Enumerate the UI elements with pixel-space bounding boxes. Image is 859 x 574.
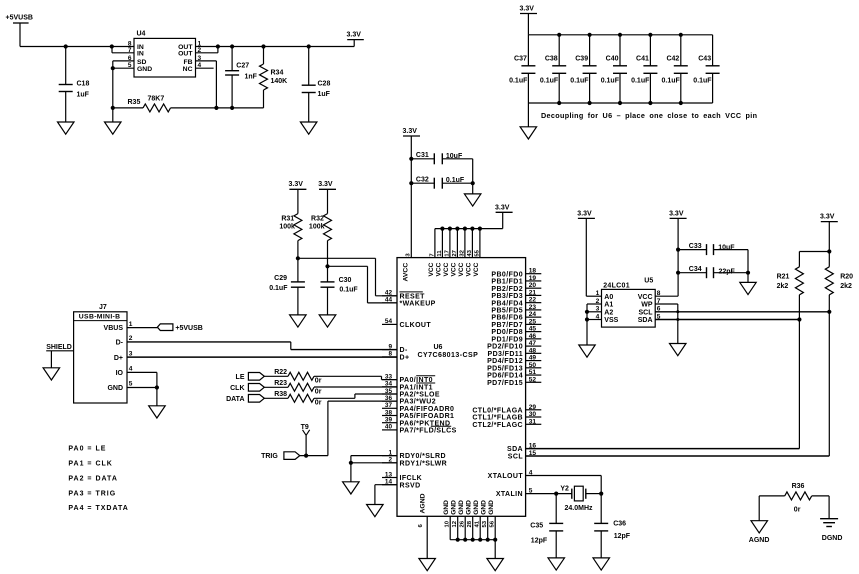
svg-text:0r: 0r (315, 378, 322, 385)
capacitor C33 10uF (678, 243, 748, 255)
svg-text:1uF: 1uF (77, 92, 90, 99)
wire DATA to PA2 pin35 (314, 394, 397, 398)
ground J7 (149, 406, 166, 418)
svg-text:C32: C32 (416, 176, 429, 183)
svg-text:D+: D+ (400, 355, 410, 362)
svg-text:DGND: DGND (822, 535, 843, 542)
wire D+ J7 to chip (127, 356, 397, 358)
svg-text:C42: C42 (666, 56, 679, 63)
node +5VUSB tag (127, 324, 203, 332)
pin 15 SCL (508, 450, 537, 461)
resistor R38 0r (274, 391, 321, 406)
svg-text:XTALOUT: XTALOUT (488, 473, 524, 480)
eeprom U5 24LC01 body (602, 278, 656, 328)
svg-text:VBUS: VBUS (104, 325, 124, 332)
pin 26 GND (458, 500, 466, 540)
svg-text:PA4/FIFOADR0: PA4/FIFOADR0 (400, 406, 455, 413)
ground AGND chip (419, 559, 436, 571)
wire RDY0/RDY1 tie to ground (349, 456, 397, 482)
svg-text:R20: R20 (840, 273, 853, 280)
svg-text:GND: GND (466, 500, 473, 515)
svg-text:17: 17 (444, 249, 450, 256)
svg-text:PB4/FD4: PB4/FD4 (491, 300, 523, 307)
svg-text:46: 46 (529, 333, 537, 340)
pin 2 A1 U5 (596, 298, 614, 309)
capacitor C30 0.1uF (321, 277, 359, 315)
pin 13 IFCLK stub (382, 471, 422, 482)
svg-text:FB: FB (183, 59, 192, 66)
ground under C35 (548, 558, 565, 570)
svg-text:RSVD: RSVD (400, 482, 421, 489)
svg-text:SHIELD: SHIELD (46, 344, 72, 351)
svg-text:18: 18 (529, 268, 537, 275)
svg-text:SD: SD (137, 59, 147, 66)
svg-text:RDY0/*SLRD: RDY0/*SLRD (400, 453, 446, 460)
svg-text:U6: U6 (434, 344, 443, 351)
svg-text:PB5/FD5: PB5/FD5 (491, 308, 523, 315)
svg-text:20: 20 (529, 282, 537, 289)
resistor R35 78K7 (111, 96, 264, 112)
ground U5 WP (670, 344, 687, 356)
svg-text:R36: R36 (792, 483, 805, 490)
ground DGND symbol (820, 519, 842, 542)
resistor R22 0r (274, 369, 321, 384)
overline SLCS (431, 425, 451, 427)
pin 39 PA6/*PKTEND stub (382, 417, 450, 428)
capacitor C38 0.1uF (540, 35, 566, 103)
svg-text:23: 23 (529, 304, 537, 311)
svg-text:3.3V: 3.3V (289, 181, 304, 188)
pin 24 PB6/FD6 stub (491, 311, 541, 322)
pin 22 PB4/FD4 stub (491, 297, 541, 308)
svg-text:100k: 100k (279, 224, 295, 231)
pin 10 GND (443, 500, 451, 540)
pin 1 A0 U5 (596, 290, 614, 301)
resistor R20 2k2 (825, 252, 853, 312)
test point T9 (301, 424, 310, 456)
svg-text:24: 24 (529, 311, 537, 318)
svg-text:PD5/FD13: PD5/FD13 (487, 365, 523, 372)
pin 20 PB2/FD2 stub (491, 282, 541, 293)
svg-text:VCC: VCC (473, 262, 480, 276)
svg-text:AVCC: AVCC (403, 263, 410, 282)
svg-text:3.3V: 3.3V (495, 204, 510, 211)
svg-text:CLK: CLK (230, 385, 244, 392)
ground GND bus (487, 559, 504, 571)
pin 4 XTALOUT (488, 470, 533, 481)
wire U4 pin6 SD to pin5 GND (111, 61, 134, 108)
wire LE to PA0 pin33 (314, 376, 397, 379)
power symbol 3.3V R31 (289, 181, 307, 213)
pin 5 GND J7 (107, 381, 132, 392)
svg-text:SCL: SCL (508, 454, 524, 461)
svg-text:C37: C37 (514, 56, 527, 63)
svg-text:PA1/INT1: PA1/INT1 (400, 384, 433, 391)
ground AGND symbol (749, 521, 770, 544)
svg-text:C39: C39 (575, 56, 588, 63)
svg-text:39: 39 (385, 417, 393, 424)
wire R32 node to WAKEUP pin44 (325, 264, 397, 303)
svg-text:3.3V: 3.3V (347, 31, 362, 38)
svg-text:11: 11 (437, 250, 443, 257)
capacitor C42 0.1uF (662, 35, 688, 103)
wire VCC pin 7 (429, 229, 435, 258)
svg-text:CTL0/*FLAGA: CTL0/*FLAGA (472, 407, 523, 414)
capacitor C27 1nF (225, 47, 258, 108)
svg-text:VCC: VCC (443, 262, 450, 276)
power symbol 3.3V pull-ups (820, 214, 838, 254)
svg-text:VCC: VCC (435, 262, 442, 276)
wire R31 node to RESET pin42 (296, 256, 397, 296)
pin 19 PB1/FD1 stub (491, 275, 541, 286)
pin 38 PA5/FIFOADR1 stub (382, 409, 454, 420)
svg-text:140K: 140K (271, 78, 288, 85)
svg-text:PD2/FD10: PD2/FD10 (487, 344, 523, 351)
svg-text:VCC: VCC (428, 262, 435, 276)
svg-text:PB2/FD2: PB2/FD2 (491, 286, 523, 293)
ground RSVD (367, 505, 384, 517)
pin 30 CTL1/*FLAGB stub (472, 411, 541, 422)
svg-text:1uF: 1uF (318, 91, 331, 98)
pin 37 PA4/FIFOADR0 stub (382, 402, 454, 413)
svg-text:45: 45 (529, 326, 537, 333)
connector J7 USB-MINI-B (74, 304, 127, 403)
resistor R32 100k (309, 214, 332, 282)
svg-text:PD6/FD14: PD6/FD14 (487, 373, 523, 380)
wire U4 pin4 NC stub (196, 67, 214, 69)
svg-text:AGND: AGND (420, 493, 427, 513)
capacitor C32 0.1uF (411, 176, 475, 188)
pin 9 D- stub (382, 343, 408, 354)
pin 8 D+ stub (382, 351, 409, 362)
svg-text:0.1uF: 0.1uF (339, 287, 358, 294)
svg-text:R31: R31 (281, 215, 294, 222)
crystal Y2 24.0MHz (560, 486, 603, 512)
svg-text:55: 55 (474, 249, 480, 256)
svg-text:PA3 = TRIG: PA3 = TRIG (68, 490, 116, 497)
power symbol 3.3V decoupling bank (520, 6, 538, 35)
svg-text:100k: 100k (309, 224, 325, 231)
svg-text:3.3V: 3.3V (403, 128, 418, 135)
resistor R23 0r (274, 380, 321, 395)
svg-text:GND: GND (481, 500, 488, 515)
svg-text:0r: 0r (315, 389, 322, 396)
wire SDA pin16 to pull-up (526, 320, 800, 449)
wire XTALIN pin5 (526, 492, 572, 496)
svg-text:56: 56 (490, 520, 496, 527)
svg-text:25: 25 (529, 318, 537, 325)
pin 40 PA7/*FLD/SLCS stub (382, 424, 457, 435)
svg-text:53: 53 (482, 520, 488, 527)
svg-text:2: 2 (129, 335, 133, 342)
svg-text:0.1uF: 0.1uF (509, 77, 528, 84)
svg-text:U4: U4 (137, 31, 146, 38)
pin 21 PB3/FD3 stub (491, 289, 541, 300)
power symbol 3.3V AVCC (403, 128, 421, 258)
wire R36 right to DGND (828, 496, 830, 519)
svg-text:12: 12 (452, 520, 458, 527)
svg-text:30: 30 (529, 411, 537, 418)
wire XTALOUT pin4 (526, 476, 602, 494)
svg-text:PA0 = LE: PA0 = LE (68, 445, 106, 452)
svg-text:PA5/FIFOADR1: PA5/FIFOADR1 (400, 413, 455, 420)
svg-text:C18: C18 (77, 81, 90, 88)
pin 44 *WAKEUP stub (382, 297, 436, 308)
svg-text:19: 19 (529, 275, 537, 282)
svg-text:*WAKEUP: *WAKEUP (400, 301, 436, 308)
svg-text:41: 41 (475, 520, 481, 527)
ground under C30 (319, 315, 336, 327)
svg-text:0.1uF: 0.1uF (540, 77, 559, 84)
svg-text:GND: GND (443, 500, 450, 515)
pin 41 GND (473, 500, 481, 540)
svg-text:IN: IN (137, 51, 144, 58)
pin 7 WP U5 (641, 298, 661, 309)
wire C31 to C32 corner (472, 159, 474, 183)
svg-text:5: 5 (129, 381, 133, 388)
svg-text:USB-MINI-B: USB-MINI-B (79, 314, 121, 321)
svg-text:54: 54 (385, 318, 393, 325)
svg-text:3.3V: 3.3V (669, 210, 684, 217)
svg-text:1nF: 1nF (245, 74, 258, 81)
wire decoupling top rail (528, 33, 712, 37)
wire VCC pin 55 (474, 229, 480, 258)
node DATA tag (226, 395, 288, 403)
pin 5 SDA U5 (638, 313, 661, 324)
pin 6 SCL U5 (639, 306, 661, 317)
svg-text:PB0/FD0: PB0/FD0 (491, 271, 523, 278)
svg-text:0.1uF: 0.1uF (269, 285, 288, 292)
pin 4 IO J7 (116, 366, 133, 377)
svg-text:43: 43 (467, 249, 473, 256)
capacitor C40 0.1uF (601, 35, 627, 103)
pin 25 PB7/FD7 stub (491, 318, 541, 329)
wire U4 pin2 to output (196, 47, 218, 53)
pin 33 PA0/INT0 stub (382, 373, 433, 384)
svg-text:51: 51 (529, 369, 537, 376)
svg-text:LE: LE (236, 374, 245, 381)
svg-text:2k2: 2k2 (777, 283, 789, 290)
svg-text:24.0MHz: 24.0MHz (565, 505, 594, 512)
ground SHIELD (43, 368, 60, 380)
svg-text:Y2: Y2 (560, 486, 569, 493)
svg-text:PD0/FD8: PD0/FD8 (491, 329, 523, 336)
ground under C29 (290, 315, 307, 327)
svg-text:PA2 = DATA: PA2 = DATA (68, 475, 117, 482)
pin 1 RDY0/*SLRD stub (382, 449, 446, 460)
svg-text:3.3V: 3.3V (520, 6, 535, 13)
svg-text:C35: C35 (530, 522, 543, 529)
capacitor C41 0.1uF (631, 35, 657, 103)
ground under C28 (300, 122, 317, 134)
svg-text:PA4 = TXDATA: PA4 = TXDATA (68, 505, 128, 512)
svg-text:10uF: 10uF (446, 153, 463, 160)
svg-text:42: 42 (385, 290, 393, 297)
capacitor C34 22pF (678, 266, 748, 278)
resistor R36 0r (759, 483, 829, 513)
pin 2 RDY1/*SLWR stub (382, 457, 447, 468)
svg-text:28: 28 (467, 520, 473, 527)
wire U4 pin7 tie to pin8 (112, 47, 134, 53)
svg-text:3.3V: 3.3V (820, 214, 835, 221)
ground under R35 chain (105, 108, 122, 134)
svg-text:78K7: 78K7 (148, 96, 165, 103)
capacitor C29 0.1uF (269, 275, 305, 315)
ground decoupling bank (520, 103, 537, 139)
pin 6 AGND (418, 493, 427, 558)
resistor R31 100k (279, 214, 302, 282)
overline RESET (400, 291, 423, 293)
wire VCC bus (435, 227, 503, 231)
resistor R21 2k2 (777, 267, 804, 320)
pin 31 CTL2/*FLAGC stub (472, 418, 541, 429)
wire A1 A2 VSS tie (585, 304, 602, 345)
pin 4 VSS U5 (596, 313, 619, 324)
chip U6 CY7C68013-CSP body (397, 258, 526, 517)
svg-text:GND: GND (458, 500, 465, 515)
svg-text:4: 4 (129, 366, 133, 373)
svg-text:0.1uF: 0.1uF (446, 177, 465, 184)
svg-text:PA1 = CLK: PA1 = CLK (68, 460, 112, 467)
svg-text:27: 27 (452, 249, 458, 256)
capacitor C35 12pF (530, 494, 563, 558)
capacitor C18 (59, 47, 90, 123)
power symbol 3.3V VCC bus (495, 204, 513, 228)
svg-text:VCC: VCC (638, 294, 653, 301)
wire SCL pin15 to pull-up (526, 312, 830, 456)
svg-text:PD1/FD9: PD1/FD9 (491, 336, 523, 343)
wire R36 left to AGND (758, 496, 760, 521)
svg-text:+5VUSB: +5VUSB (175, 325, 202, 332)
capacitor C31 10uF (411, 152, 472, 164)
svg-text:40: 40 (385, 424, 393, 431)
svg-text:0.1uF: 0.1uF (631, 77, 650, 84)
svg-text:AGND: AGND (749, 537, 770, 544)
svg-text:SDA: SDA (507, 446, 523, 453)
svg-text:R23: R23 (274, 380, 287, 387)
pin 56 GND (488, 500, 496, 540)
svg-text:PD7/FD15: PD7/FD15 (487, 380, 523, 387)
svg-text:C30: C30 (339, 277, 352, 284)
pin 29 CTL0/*FLAGA stub (472, 404, 541, 415)
svg-text:R38: R38 (274, 391, 287, 398)
svg-text:48: 48 (529, 347, 537, 354)
pin 53 GND (481, 500, 489, 540)
pin 3 D+ J7 (114, 351, 133, 362)
svg-text:1: 1 (129, 321, 133, 328)
svg-text:T9: T9 (301, 424, 309, 431)
svg-text:12pF: 12pF (614, 533, 631, 540)
svg-text:+5VUSB: +5VUSB (6, 15, 33, 22)
svg-text:GND: GND (137, 66, 152, 73)
wire D- J7 to chip (127, 342, 397, 350)
pin 50 PD5/FD13 stub (487, 362, 541, 373)
svg-text:29: 29 (529, 404, 537, 411)
resistor R34 140K (260, 47, 288, 108)
pin 47 PD2/FD10 stub (487, 340, 541, 351)
svg-text:0.1uF: 0.1uF (662, 77, 681, 84)
svg-text:0r: 0r (794, 506, 801, 513)
svg-text:C41: C41 (636, 56, 649, 63)
pin 2 D- J7 (116, 335, 133, 346)
node SHIELD (46, 344, 73, 368)
svg-text:VCC: VCC (465, 262, 472, 276)
ground C33/C34 (740, 282, 756, 294)
wire R21 top branch (799, 252, 829, 267)
svg-text:38: 38 (385, 409, 393, 416)
power symbol 3.3V regulator output (347, 31, 364, 46)
node LE tag (236, 373, 288, 381)
svg-text:SCL: SCL (639, 309, 654, 316)
svg-text:GND: GND (473, 500, 480, 515)
capacitor C43 0.1uF (693, 35, 719, 103)
svg-text:26: 26 (460, 520, 466, 527)
svg-text:J7: J7 (99, 304, 107, 311)
wire VCC pin 11 (437, 229, 443, 258)
svg-text:C43: C43 (698, 56, 711, 63)
svg-text:PB3/FD3: PB3/FD3 (491, 293, 523, 300)
svg-text:D-: D- (116, 340, 124, 347)
svg-text:C33: C33 (689, 243, 702, 250)
svg-text:47: 47 (529, 340, 537, 347)
pin 42 RESET stub (382, 290, 425, 301)
wire C33/C34 to ground (746, 250, 750, 283)
svg-text:R35: R35 (128, 99, 141, 106)
svg-text:VSS: VSS (604, 317, 618, 324)
pin 16 SDA (507, 443, 536, 454)
ground RDY pins (343, 482, 360, 494)
svg-text:C40: C40 (606, 56, 619, 63)
svg-text:2k2: 2k2 (840, 283, 852, 290)
svg-text:DATA: DATA (226, 396, 244, 403)
ground U5 address pins (579, 345, 595, 357)
pin 12 GND (451, 500, 459, 540)
wire U5 WP to ground (655, 304, 679, 344)
svg-text:0r: 0r (315, 400, 322, 407)
wire U5 VCC up (655, 218, 680, 296)
svg-text:13: 13 (385, 471, 393, 478)
svg-text:R21: R21 (777, 273, 790, 280)
svg-text:44: 44 (385, 297, 393, 304)
svg-text:Decoupling for U6 – place one: Decoupling for U6 – place one close to e… (541, 111, 757, 120)
svg-text:C28: C28 (318, 81, 331, 88)
node TRIG tag (261, 452, 328, 460)
svg-text:CTL1/*FLAGB: CTL1/*FLAGB (472, 415, 523, 422)
svg-text:TRIG: TRIG (261, 453, 278, 460)
overline INT1 (416, 382, 435, 384)
svg-text:R22: R22 (274, 369, 287, 376)
pin 35 PA2/*SLOE stub (382, 388, 440, 399)
svg-text:49: 49 (529, 355, 537, 362)
svg-text:C27: C27 (236, 62, 249, 69)
pin 3 A2 U5 (596, 306, 614, 317)
wire VCC pin 32 (459, 229, 465, 258)
svg-text:31: 31 (529, 418, 537, 425)
svg-text:OUT: OUT (178, 51, 193, 58)
wire +5VUSB rail to U4 (20, 44, 134, 48)
svg-text:D-: D- (400, 347, 408, 354)
svg-text:0.1uF: 0.1uF (601, 77, 620, 84)
pin 28 GND (466, 500, 474, 540)
svg-text:50: 50 (529, 362, 537, 369)
svg-text:A0: A0 (604, 294, 613, 301)
svg-text:XTALIN: XTALIN (496, 491, 523, 498)
ground under C36 (593, 558, 610, 570)
pin 8 VCC U5 (638, 290, 661, 301)
capacitor C28 1uF (302, 47, 331, 123)
svg-text:PD4/FD12: PD4/FD12 (487, 358, 523, 365)
svg-text:32: 32 (459, 249, 465, 256)
